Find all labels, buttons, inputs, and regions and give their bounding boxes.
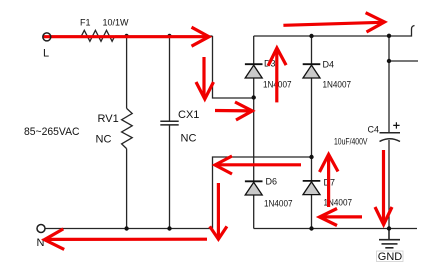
junction stub node — [387, 59, 391, 63]
fuse F1 — [82, 30, 115, 41]
wire bridge left branch — [253, 36, 255, 229]
arrow up through D7 — [320, 154, 339, 207]
wire C4 branch to plate — [388, 61, 390, 133]
ground GND — [379, 229, 400, 248]
wire L to fuse — [51, 35, 82, 37]
svg-text:F1: F1 — [80, 18, 91, 28]
wire C4 bottom — [388, 140, 390, 229]
terminal L — [43, 33, 51, 41]
junction bridge left mid — [252, 95, 256, 99]
wire L step down — [213, 36, 254, 98]
svg-text:D6: D6 — [266, 177, 278, 187]
label plus of C4 — [393, 122, 399, 128]
svg-text:NC: NC — [96, 134, 112, 146]
wire fuse to corner — [115, 35, 213, 37]
svg-text:C4: C4 — [368, 125, 380, 135]
junction output node — [387, 34, 391, 38]
svg-text:10uF/400V: 10uF/400V — [334, 137, 368, 147]
arrow top rail right — [283, 13, 384, 32]
arrow left above bottom rail — [320, 209, 363, 226]
arrow left N line — [44, 229, 207, 250]
varistor RV1 — [122, 108, 133, 148]
wire CX1 branch top — [169, 36, 171, 121]
wire bridge right branch — [311, 36, 313, 229]
diode D3 — [245, 64, 263, 78]
svg-text:L: L — [43, 48, 49, 60]
capacitor C4 — [380, 133, 401, 142]
svg-text:D4: D4 — [323, 60, 335, 70]
junction after fuse — [124, 34, 128, 38]
junction RV1 bottom — [124, 226, 128, 230]
wire right stub — [389, 60, 418, 62]
arrow down at L step — [196, 57, 214, 99]
svg-text:CX1: CX1 — [178, 109, 199, 121]
junction D4 top — [309, 34, 313, 38]
svg-text:10/1W: 10/1W — [103, 18, 130, 28]
wire output stub with hook — [389, 26, 415, 37]
svg-text:1N4007: 1N4007 — [264, 199, 293, 209]
label GND — [377, 251, 404, 263]
junction CX1 bottom — [167, 226, 171, 230]
arrow down to GND — [375, 150, 392, 225]
junction D7 bottom — [309, 226, 313, 230]
terminal N — [37, 225, 45, 233]
arrow left mid return — [215, 156, 301, 174]
svg-text:NC: NC — [181, 133, 197, 145]
junction CX1 top — [167, 34, 171, 38]
arrow up through D3 — [268, 48, 286, 102]
junction bridge right mid — [309, 155, 313, 159]
arrow current L line right — [43, 27, 210, 46]
svg-text:85~265VAC: 85~265VAC — [24, 126, 80, 138]
wire N line — [45, 228, 213, 230]
wire RV1 branch top — [126, 36, 128, 108]
svg-text:1N4007: 1N4007 — [323, 80, 352, 90]
capacitor CX1 — [160, 121, 178, 125]
wire N step up to bridge — [213, 157, 312, 229]
diode D4 — [303, 64, 321, 78]
wire bridge top rail — [254, 35, 389, 37]
svg-text:GND: GND — [378, 251, 403, 263]
wire CX1 branch bottom — [169, 125, 171, 229]
wire RV1 branch bottom — [126, 149, 128, 229]
arrow down at N step — [210, 183, 227, 239]
wire C4 branch upper — [388, 36, 390, 61]
svg-text:RV1: RV1 — [98, 113, 119, 125]
wire bridge bottom rail — [254, 228, 417, 230]
arrow right into bridge left mid — [215, 102, 252, 120]
diode D7 — [303, 181, 321, 195]
junction C4 GND — [387, 226, 391, 230]
diode D6 — [245, 181, 263, 195]
